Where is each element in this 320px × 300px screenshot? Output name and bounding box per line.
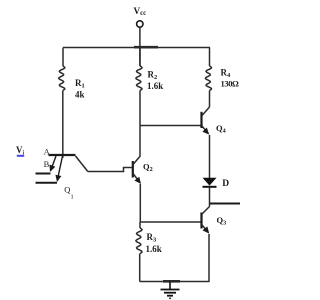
transistor Q4 collector [202, 107, 210, 116]
label Q3 [217, 215, 227, 227]
label R1 4k [75, 78, 85, 100]
wire R3 bottom lead [139, 254, 141, 282]
transistor Q1 collector [76, 156, 88, 172]
wire Q1 collector to Q2 base [88, 168, 132, 172]
resistor R2 [136, 66, 142, 91]
wire diode to output node [209, 187, 211, 207]
ground [161, 282, 180, 299]
diode D [203, 178, 217, 187]
label Q4 [216, 123, 226, 135]
svg-text:R3: R3 [147, 232, 158, 244]
wire R3 top lead [139, 222, 141, 228]
transistor Q4 base bar [200, 112, 202, 128]
transistor Q4 emitter [202, 126, 209, 135]
wire Vcc stem [139, 27, 141, 66]
svg-text:D: D [222, 179, 229, 189]
svg-text:1.6k: 1.6k [147, 81, 163, 91]
svg-text:R2: R2 [148, 70, 158, 82]
svg-text:B: B [44, 159, 50, 169]
svg-text:A: A [44, 146, 51, 156]
label R4 130ohm [221, 68, 240, 89]
wire Q3 emitter to bottom rail [208, 234, 210, 282]
transistor Q3 base bar [200, 213, 202, 229]
svg-text:Q2: Q2 [143, 161, 153, 173]
resistor R1 [59, 66, 65, 91]
wire input line B [36, 182, 58, 184]
wire node to Q4 base [140, 125, 201, 127]
wire left column bottom lead [62, 91, 64, 159]
wire Q2 emitter column [139, 184, 141, 222]
wire left column top lead [62, 48, 64, 67]
label B [44, 159, 50, 169]
svg-text:R1: R1 [75, 78, 85, 90]
transistor Q2 base bar [132, 161, 134, 178]
wire R4 to Q4 collector [209, 91, 211, 108]
label R3 1.6k [146, 232, 162, 254]
label Q1 [64, 185, 73, 201]
transistor Q2 collector [133, 156, 140, 165]
wire node to Q3 base [140, 221, 201, 223]
svg-text:1.6k: 1.6k [146, 244, 162, 254]
label A [44, 146, 51, 156]
Vcc label [134, 6, 147, 17]
svg-text:Vcc: Vcc [134, 6, 147, 17]
resistor R4 [205, 66, 211, 91]
wire middle column R2 to Q2 collector [139, 91, 141, 157]
transistor Q1 emitter 1 [50, 156, 57, 172]
svg-text:130Ω: 130Ω [221, 79, 240, 89]
wire right column top lead [209, 48, 211, 67]
Vcc terminal [137, 21, 143, 27]
label R2 1.6k [147, 70, 163, 92]
transistor Q3 collector [202, 207, 210, 215]
wire Q4 emitter to diode [209, 135, 211, 178]
resistor R3 [136, 228, 142, 254]
transistor Q3 emitter [202, 225, 209, 234]
transistor Q2 emitter [133, 174, 141, 185]
wire output line [210, 203, 241, 205]
svg-text:Q3: Q3 [217, 215, 227, 227]
transistor Q1 base bar [49, 154, 76, 156]
wire top rail Vcc [63, 46, 210, 48]
transistor Q1 emitter 2 [55, 156, 62, 182]
svg-text:4k: 4k [75, 90, 85, 100]
svg-text:R4: R4 [221, 68, 232, 80]
label D [222, 179, 229, 189]
svg-text:Q4: Q4 [216, 123, 226, 135]
wire bottom rail [140, 280, 210, 282]
svg-text:Q1: Q1 [64, 185, 73, 201]
wire input line A [36, 173, 51, 175]
label Vi [16, 145, 25, 157]
wire middle column (Vcc to Q2 collector) [139, 48, 141, 67]
label Q2 [143, 161, 153, 173]
